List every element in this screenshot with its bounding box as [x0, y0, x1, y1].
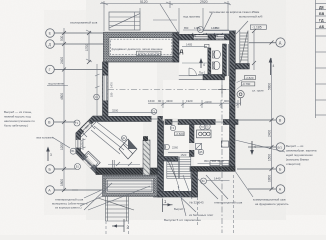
svg-text:№ 320043: № 320043 — [190, 201, 204, 205]
section flag mid (4) — [200, 59, 202, 68]
svg-text:-0.760: -0.760 — [242, 82, 251, 86]
grid bubble V right — [276, 116, 285, 125]
svg-text:Г: Г — [49, 68, 51, 72]
svg-text:910: 910 — [215, 26, 220, 30]
svg-text:В1: В1 — [71, 149, 75, 153]
corridor mid line — [182, 62, 207, 64]
svg-text:люк положить: люк положить — [36, 136, 55, 140]
top wall (north) — [179, 34, 235, 40]
right wall (east) — [230, 81, 236, 171]
leader diagonal to top wall — [160, 4, 179, 34]
partition right of bay room — [143, 140, 150, 178]
dims near stair room bottom right — [204, 159, 224, 163]
svg-text:БВ: БВ — [319, 12, 325, 16]
svg-text:2400: 2400 — [267, 130, 271, 137]
svg-text:Б/1: Б/1 — [278, 145, 283, 149]
stair room east wall — [192, 171, 198, 197]
right side levels — [245, 76, 256, 80]
svg-text:1485: 1485 — [186, 43, 193, 47]
axis cross — [218, 89, 226, 91]
bathroom partition vertical — [208, 48, 211, 76]
bottom leader texts — [183, 175, 192, 199]
svg-text:2260: 2260 — [218, 159, 225, 163]
svg-text:1630: 1630 — [148, 99, 155, 103]
bathroom fixtures — [205, 44, 221, 69]
axis dash line — [108, 89, 229, 91]
survey circle / lyuk — [237, 91, 244, 98]
axis leader G — [54, 69, 102, 71]
leaders from corner into room — [97, 122, 128, 146]
dim slash ticks left chain — [62, 31, 91, 192]
axis leader A — [54, 189, 102, 191]
right text block — [286, 144, 317, 166]
svg-text:2260: 2260 — [172, 146, 178, 150]
shaft lines — [226, 44, 228, 76]
window gap 2 in top wall — [216, 35, 224, 39]
svg-text:2400: 2400 — [60, 57, 64, 64]
grid bubble 2 (top) — [198, 27, 204, 33]
north / section arrow left — [47, 148, 49, 161]
section mark 1 — [162, 199, 164, 213]
right vertical dimension chain — [271, 58, 273, 189]
svg-text:900: 900 — [224, 99, 229, 103]
axis leader D — [54, 43, 103, 45]
ticks along south wall interior — [116, 162, 120, 166]
section flag right mid (4) — [251, 141, 253, 154]
svg-text:БЛОК ПОЛСТЕН: БЛОК ПОЛСТЕН — [138, 52, 161, 56]
level box -1.185 — [250, 25, 266, 30]
svg-text:[записано Вними: [записано Вними — [286, 158, 309, 162]
stove fixtures — [197, 130, 230, 166]
svg-text:300: 300 — [212, 159, 217, 163]
bubble B1 with dim — [201, 178, 207, 184]
left text block 2 — [52, 198, 88, 210]
svg-text:фундамент демонтир. затем и: фундамент демонтир. затем изношен — [112, 47, 163, 51]
bathroom right partition — [223, 44, 227, 76]
bay window gap (top diagonal) — [81, 122, 92, 133]
stair room north wall — [158, 157, 179, 162]
right edge table — [316, 0, 326, 118]
svg-text:из корпуса швелл.): из корпуса швелл.) — [55, 206, 82, 210]
stair room interior stairs (two flights, horizontal treads) — [167, 157, 191, 188]
axis leader V — [54, 121, 76, 123]
bay interior: bath (rotated rect) — [82, 151, 100, 169]
top overall dimension line — [100, 3, 230, 5]
svg-text:1520: 1520 — [181, 153, 187, 157]
svg-text:1800: 1800 — [267, 175, 271, 182]
room interior fills — [81, 38, 230, 191]
right bottom leaders and texts — [235, 140, 285, 152]
svg-text:нижний король под: нижний король под — [4, 115, 31, 119]
svg-text:4: 4 — [273, 64, 275, 68]
bubble pair stair room — [160, 144, 169, 149]
svg-text:850: 850 — [184, 26, 189, 30]
small dim row above top wall — [183, 29, 229, 31]
svg-text:АБ: АБ — [319, 25, 325, 29]
rotated dims left — [60, 35, 89, 186]
svg-text:Выгреб — из стены,: Выгреб — из стены, — [4, 110, 32, 114]
svg-text:950: 950 — [204, 159, 209, 163]
bay window gap (left) — [76, 140, 81, 148]
svg-text:1470: 1470 — [110, 82, 114, 88]
svg-text:-2.820: -2.820 — [175, 132, 184, 136]
dash near A — [72, 189, 78, 191]
svg-text:1485: 1485 — [194, 26, 200, 30]
left wall dim ticks — [86, 30, 100, 116]
terrace inner dashed outline — [111, 39, 172, 55]
dark block top of partition — [143, 136, 148, 141]
svg-text:3: 3 — [50, 153, 52, 157]
section flag right top (4) — [270, 59, 272, 76]
interior room dimension row — [148, 102, 238, 104]
axis leader E — [54, 32, 103, 34]
svg-text:под проемы: под проемы — [183, 14, 201, 18]
svg-text:Б1: Б1 — [76, 165, 80, 169]
svg-text:1700: 1700 — [85, 44, 89, 51]
toilet 1 — [214, 50, 221, 58]
door swing small — [196, 143, 202, 149]
small bubble in bay room — [122, 136, 127, 141]
svg-text:500: 500 — [60, 35, 64, 41]
stair room west wall — [158, 121, 164, 197]
interior bubbles — [170, 125, 175, 130]
svg-text:1500: 1500 — [267, 154, 271, 161]
washbasin box — [205, 44, 209, 47]
svg-text:4300: 4300 — [166, 99, 173, 103]
svg-text:свежевыбран. кирпича: свежевыбран. кирпича — [286, 149, 317, 153]
grid bubble D right — [276, 38, 285, 47]
svg-text:наклоном (сечение по: наклоном (сечение по — [4, 119, 35, 123]
leaders to walls — [249, 42, 276, 44]
bay secondary bubbles — [94, 94, 100, 100]
svg-text:под копание: под копание — [48, 82, 64, 86]
perimeter ticks top wall — [192, 33, 226, 37]
svg-text:на фундаменте укрепить: на фундаменте укрепить — [255, 202, 289, 206]
svg-text:Б1: Б1 — [202, 179, 206, 183]
svg-text:4800: 4800 — [60, 93, 64, 100]
leaders to deck — [84, 183, 112, 210]
grid bubble E — [46, 29, 55, 38]
svg-text:сл. грунт: сл. грунт — [252, 89, 264, 93]
section mark 2 — [123, 219, 125, 232]
stair room south wall — [154, 191, 198, 197]
bay interior dimension ticks — [81, 121, 98, 172]
svg-text:3200: 3200 — [112, 109, 119, 113]
door swing corridor — [189, 68, 197, 76]
svg-text:температурный шов: температурный шов — [214, 201, 243, 205]
terrace outer wall (stippled) — [103, 32, 178, 62]
left text block 1 — [4, 110, 35, 128]
grid bubble A — [46, 186, 55, 195]
svg-text:5800: 5800 — [267, 83, 271, 90]
svg-text:1440: 1440 — [214, 177, 221, 181]
grid bubble B — [46, 165, 55, 174]
corridor south wall — [203, 75, 225, 80]
svg-text:коммуникационный шов: коммуникационный шов — [253, 198, 286, 202]
left vertical dimension chain — [63, 28, 65, 191]
svg-text:Выпуски 5 шт. парапетные: Выпуски 5 шт. парапетные — [164, 218, 201, 222]
level box -2.820 (interior) — [175, 132, 185, 136]
grid bubble G — [46, 65, 55, 74]
misc extension dashed lines bottom — [106, 175, 234, 235]
dim slash ticks right chain — [252, 29, 274, 191]
bay room south wall (dark) — [96, 168, 158, 175]
svg-text:Д5: Д5 — [199, 150, 203, 154]
partition between rooms — [190, 125, 195, 157]
interior misc ticks — [161, 100, 241, 108]
svg-text:-1.185: -1.185 — [252, 26, 262, 30]
left wall (west) — [103, 62, 109, 118]
porch slab line top right — [203, 30, 236, 32]
top extension lines — [101, 2, 231, 33]
svg-text:1920: 1920 — [186, 99, 193, 103]
toilet 2 — [213, 61, 220, 69]
svg-text:изолированный шов: изолированный шов — [70, 21, 98, 25]
bottom-right wall — [190, 167, 235, 172]
bottom outside stairs — [98, 197, 134, 222]
window gap left wall — [103, 76, 108, 101]
bay window gap (bottom diagonal) — [83, 157, 94, 168]
svg-text:4: 4 — [254, 145, 256, 149]
svg-text:монолитный ж/б: монолитный ж/б — [239, 14, 263, 18]
grid bubble D — [46, 40, 55, 49]
entrance stairs (right, outside) — [240, 31, 248, 64]
svg-text:4: 4 — [203, 63, 205, 67]
right wall upper — [230, 31, 236, 81]
svg-text:1800: 1800 — [60, 179, 64, 186]
bay walls band — [78, 118, 107, 173]
svg-text:ДЕ: ДЕ — [319, 6, 325, 10]
counter edge lines near south wall — [112, 160, 114, 168]
svg-text:юдей под наклоном: юдей под наклоном — [286, 153, 312, 157]
grid bubble V — [45, 118, 54, 127]
grid bubble A right — [276, 185, 285, 194]
svg-text:4160: 4160 — [205, 100, 212, 104]
corridor interior wall horizontal — [93, 116, 163, 121]
entrance landing wall stub — [235, 64, 249, 70]
svg-text:90: 90 — [158, 99, 162, 103]
terrace right wall (shared, dark) — [173, 33, 179, 62]
svg-text:было забетонир.): было забетонир.) — [4, 124, 28, 128]
svg-text:Выгреб — из: Выгреб — из — [286, 144, 304, 148]
svg-text:-2.820: -2.820 — [245, 76, 254, 80]
top-left entrance stairs — [109, 12, 140, 30]
svg-text:Пд-1: Пд-1 — [199, 71, 206, 75]
svg-text:2920: 2920 — [200, 0, 208, 4]
svg-text:1203: 1203 — [81, 141, 84, 147]
axis leader B — [54, 168, 76, 170]
svg-text:5120: 5120 — [140, 0, 148, 4]
svg-text:отверстия]: отверстия] — [286, 162, 301, 166]
grid bubble B/1 right — [276, 143, 285, 152]
leaders from level boxes — [237, 79, 245, 83]
window gap in top wall — [194, 35, 208, 39]
bay interior: shower diamond — [119, 139, 137, 159]
svg-text:д: д — [180, 49, 184, 55]
grid bubble B right — [276, 165, 285, 174]
svg-text:из бетонных плит: из бетонных плит — [189, 213, 214, 217]
svg-text:ГД: ГД — [319, 18, 324, 22]
svg-text:180: 180 — [110, 92, 114, 97]
svg-text:С1: С1 — [95, 95, 99, 99]
